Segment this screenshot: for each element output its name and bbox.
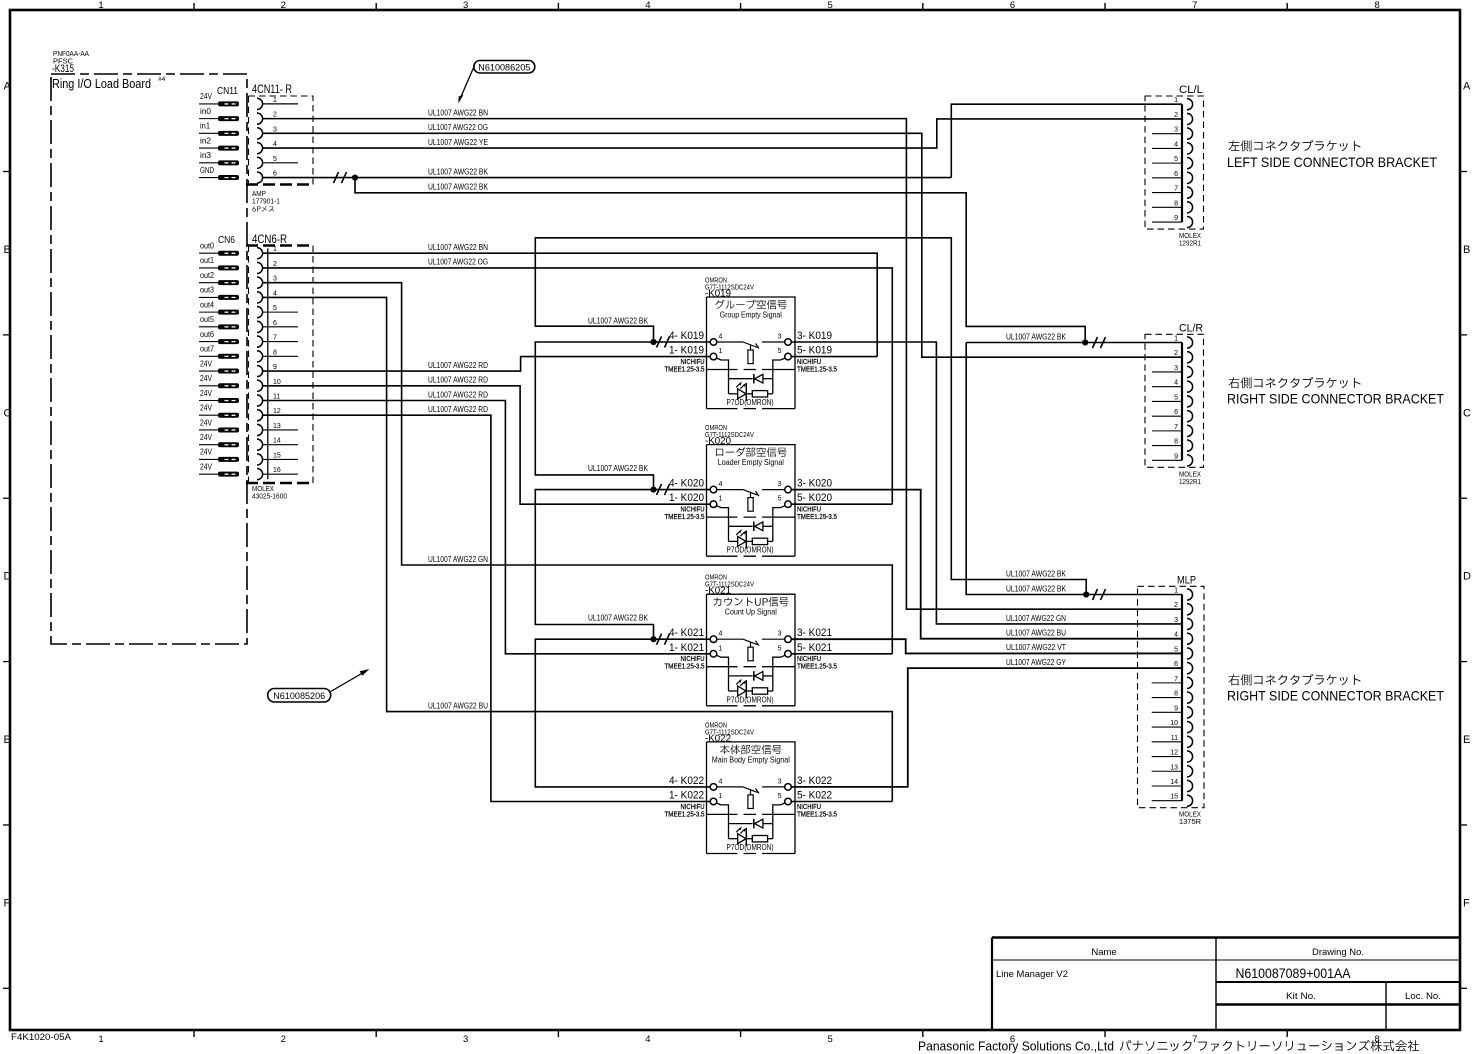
K021 pin 1 terminal [710, 651, 717, 658]
svg-text:7: 7 [273, 335, 277, 342]
K019 LED emission arrows [736, 383, 745, 389]
svg-text:4: 4 [719, 481, 723, 488]
svg-text:1: 1 [273, 246, 277, 253]
svg-text:2: 2 [281, 0, 286, 11]
CL/R pin 9 contact [1187, 455, 1193, 466]
svg-text:Line Manager V2: Line Manager V2 [996, 969, 1068, 980]
svg-text:1: 1 [273, 97, 277, 104]
svg-text:5: 5 [778, 348, 782, 355]
K020 pin 1 terminal [710, 501, 717, 508]
svg-text:4: 4 [719, 334, 723, 341]
svg-text:CL/L: CL/L [1179, 84, 1203, 96]
svg-text:UL1007 AWG22 BK: UL1007 AWG22 BK [428, 183, 489, 192]
svg-text:UL1007 AWG22 BU: UL1007 AWG22 BU [428, 701, 488, 710]
svg-text:in2: in2 [200, 135, 211, 145]
K020 pin 4 terminal [710, 486, 717, 493]
svg-text:UL1007 AWG22 BK: UL1007 AWG22 BK [588, 614, 649, 623]
K021 contact switch [717, 638, 743, 640]
balloon N610086205 leader arrow [460, 66, 475, 101]
svg-text:OMRON: OMRON [705, 575, 727, 582]
wire K020 pin3 to MLP pin4 (BU) [791, 490, 1182, 639]
label left side connector bracket JP [1229, 140, 1361, 152]
svg-text:8: 8 [1374, 0, 1379, 11]
svg-text:CL/R: CL/R [1179, 322, 1203, 334]
svg-text:3: 3 [778, 778, 782, 785]
svg-text:4: 4 [1174, 632, 1178, 639]
svg-text:9: 9 [1174, 705, 1178, 712]
svg-text:TMEE1.25-3.5: TMEE1.25-3.5 [797, 662, 837, 671]
svg-text:3: 3 [778, 631, 782, 638]
svg-text:2: 2 [281, 1034, 286, 1045]
svg-text:2: 2 [1174, 602, 1178, 609]
CL/R pin 4 stub [1152, 386, 1182, 388]
4CN6-R body line [267, 248, 269, 479]
CL/L pin 2 contact [1187, 113, 1193, 124]
K022 LED [729, 838, 738, 840]
svg-text:C: C [4, 407, 12, 419]
svg-text:in3: in3 [200, 150, 211, 160]
svg-text:OMRON: OMRON [705, 278, 727, 285]
wire break mark [657, 337, 670, 348]
wire BK branch to CL/L pin1 [951, 104, 1182, 177]
svg-text:1: 1 [1174, 97, 1178, 104]
4CN6-R pin 16 stub [263, 473, 298, 475]
wire BK lower branch [355, 178, 1085, 343]
svg-text:P7OD(OMRON): P7OD(OMRON) [727, 694, 774, 704]
svg-text:D: D [4, 571, 12, 583]
wire YE 4CN11-R pin4 to CL/L pin2 [263, 119, 1182, 148]
svg-text:4- K021: 4- K021 [669, 627, 704, 639]
K020 LED emission arrows [736, 531, 745, 537]
K022 diode [729, 823, 753, 825]
svg-text:-K022: -K022 [705, 732, 731, 744]
4CN11-R pin 1 stub [263, 103, 298, 105]
relay K020 (OMRON G7T-1112S DC24V) box [707, 445, 796, 557]
K022 pin1 internal wire [717, 803, 729, 839]
svg-text:TMEE1.25-3.5: TMEE1.25-3.5 [665, 512, 705, 521]
svg-text:F: F [1463, 898, 1470, 910]
MLP pin 7 contact [1187, 677, 1193, 688]
svg-text:1: 1 [719, 496, 723, 503]
svg-text:UL1007 AWG22 VT: UL1007 AWG22 VT [1006, 643, 1066, 652]
svg-text:3: 3 [1174, 127, 1178, 134]
svg-text:UL1007 AWG22 BK: UL1007 AWG22 BK [1006, 584, 1067, 593]
svg-text:6: 6 [1010, 0, 1015, 11]
wire BU 4CN6-R pin4 to K022 pin5 [263, 297, 893, 801]
svg-text:B: B [4, 244, 11, 256]
K022 pin 4 terminal [710, 784, 717, 791]
svg-text:out0: out0 [200, 241, 214, 251]
MLP pin 4 contact [1187, 633, 1193, 644]
CL/L pin 7 stub [1152, 192, 1182, 194]
svg-text:5: 5 [1174, 394, 1178, 401]
4CN6-R pin 16 contact [257, 469, 263, 480]
K020 diode [729, 525, 753, 527]
svg-text:7: 7 [1174, 424, 1178, 431]
svg-text:24V: 24V [200, 461, 212, 471]
svg-text:3: 3 [778, 334, 782, 341]
svg-text:TMEE1.25-3.5: TMEE1.25-3.5 [665, 662, 705, 671]
K021 title JP [714, 597, 789, 607]
svg-text:5: 5 [828, 1034, 833, 1045]
svg-text:8: 8 [1374, 1034, 1379, 1045]
svg-text:Loc. No.: Loc. No. [1405, 991, 1441, 1002]
svg-text:C: C [1463, 407, 1471, 419]
K020 resistor [746, 540, 752, 542]
svg-text:9: 9 [1174, 215, 1178, 222]
svg-text:3: 3 [463, 0, 468, 11]
svg-text:out5: out5 [200, 314, 214, 324]
4CN6-R pin 5 stub [263, 311, 298, 313]
svg-text:13: 13 [273, 423, 281, 430]
svg-text:TMEE1.25-3.5: TMEE1.25-3.5 [797, 809, 837, 818]
4CN11-R pin 5 contact [257, 157, 263, 168]
svg-text:1: 1 [98, 0, 103, 11]
svg-text:24V: 24V [200, 417, 212, 427]
svg-text:5: 5 [273, 305, 277, 312]
wire BK to CL/R pin1 [966, 342, 1182, 344]
connector CL/R dashed box [1145, 334, 1204, 467]
K020 pin 3 terminal [785, 486, 792, 493]
svg-text:6: 6 [1174, 409, 1178, 416]
K019 contact switch [717, 341, 743, 343]
wire RD 4CN6-R pin9 to K019 pin1 [263, 357, 711, 371]
svg-text:4: 4 [1174, 380, 1178, 387]
K019 pin 4 terminal [710, 339, 717, 346]
label right side connector bracket JP (CL/R) [1229, 377, 1361, 389]
svg-text:#4: #4 [158, 76, 166, 83]
junction BK at K019 pin4 [650, 339, 656, 345]
MLP pin 11 stub [1152, 741, 1182, 743]
svg-text:2: 2 [273, 261, 277, 268]
svg-text:16: 16 [273, 467, 281, 474]
4CN6-R pin 15 stub [263, 458, 298, 460]
svg-text:1: 1 [1174, 336, 1178, 343]
MLP pin 5 contact [1187, 648, 1193, 659]
svg-text:UL1007 AWG22 OG: UL1007 AWG22 OG [428, 123, 488, 132]
wire BK down to MLP pin1 [966, 343, 1182, 595]
K019 title JP [715, 300, 786, 310]
wire BN 4CN6-R pin1 to K019 pin5 [263, 253, 878, 356]
MLP pin 13 stub [1152, 770, 1182, 772]
CL/R pin 1 contact [1187, 337, 1193, 348]
CL/R pin 5 contact [1187, 396, 1193, 407]
svg-text:2: 2 [1174, 350, 1178, 357]
svg-text:4: 4 [719, 778, 723, 785]
svg-text:4: 4 [1174, 141, 1178, 148]
connector MLP dashed box [1138, 586, 1205, 807]
svg-text:F: F [4, 898, 11, 910]
4CN6-R pin 8 stub [263, 355, 298, 357]
svg-text:1- K021: 1- K021 [669, 642, 704, 654]
CL/L pin 4 contact [1187, 143, 1193, 154]
svg-text:UL1007 AWG22 BK: UL1007 AWG22 BK [588, 464, 649, 473]
relay K021 (OMRON G7T-1112S DC24V) box [707, 594, 796, 706]
svg-text:2: 2 [273, 112, 277, 119]
MLP pin 10 stub [1152, 726, 1182, 728]
wire break mark [1093, 337, 1106, 348]
wire K022 pin3 to MLP pin6 (GY) [791, 668, 1182, 787]
svg-text:N610085206: N610085206 [273, 691, 325, 701]
CL/L pin 7 contact [1187, 187, 1193, 198]
svg-text:3- K021: 3- K021 [797, 627, 832, 639]
svg-text:9: 9 [1174, 453, 1178, 460]
svg-text:7: 7 [1192, 1034, 1197, 1045]
svg-text:15: 15 [1170, 794, 1178, 801]
svg-text:5: 5 [778, 496, 782, 503]
K022 contact switch [717, 786, 743, 788]
4CN6-R pin 5 contact [257, 307, 263, 318]
K019 pin 3 terminal [785, 339, 792, 346]
4CN6-R pin 10 contact [257, 380, 263, 391]
svg-text:4CN11- R: 4CN11- R [252, 84, 292, 96]
MLP pin 15 stub [1152, 800, 1182, 802]
CL/R pin 5 stub [1152, 400, 1182, 402]
svg-text:Main Body Empty Signal: Main Body Empty Signal [712, 755, 790, 764]
svg-text:8: 8 [273, 349, 277, 356]
wire K022 pin5 [791, 801, 892, 803]
svg-text:1: 1 [719, 793, 723, 800]
wire break mark [657, 484, 670, 495]
svg-text:4- K019: 4- K019 [669, 330, 704, 342]
svg-text:24V: 24V [200, 403, 212, 413]
wire GN 4CN6-R pin3 to K021 pin5 [263, 283, 893, 654]
K022 pin 5 terminal [785, 798, 792, 805]
svg-text:out1: out1 [200, 255, 214, 265]
K021 pin 3 terminal [785, 636, 792, 643]
junction BK at K020 pin4 [650, 487, 656, 493]
svg-text:RIGHT SIDE CONNECTOR BRACKET: RIGHT SIDE CONNECTOR BRACKET [1227, 391, 1444, 407]
K022 pin 1 terminal [710, 798, 717, 805]
wire BK loop via relay coils bus [535, 238, 1086, 595]
svg-text:10: 10 [1170, 720, 1178, 727]
K021 coil [750, 643, 752, 648]
connector CL/L dashed box [1145, 96, 1204, 229]
wire OG 4CN11-R pin3 to CL/R pin2 [263, 133, 1182, 357]
svg-text:LEFT SIDE CONNECTOR BRACKET: LEFT SIDE CONNECTOR BRACKET [1227, 154, 1437, 170]
svg-text:5: 5 [273, 156, 277, 163]
K019 coil [750, 345, 752, 350]
svg-text:out3: out3 [200, 285, 214, 295]
CL/L pin 5 contact [1187, 158, 1193, 169]
wire RD 4CN6-R pin12 to K022 pin1 [263, 415, 711, 801]
CL/L pin 1 contact [1187, 99, 1193, 110]
K020 title JP [716, 447, 787, 457]
K019 pin5 internal wire [773, 358, 785, 394]
K021 diode [729, 675, 753, 677]
svg-text:7: 7 [1192, 0, 1197, 11]
junction BK at K021 pin4 [650, 636, 656, 642]
svg-text:177901-1: 177901-1 [252, 197, 280, 206]
CL/R pin 3 stub [1152, 371, 1182, 373]
svg-text:4: 4 [645, 1034, 650, 1045]
svg-text:UL1007 AWG22 OG: UL1007 AWG22 OG [428, 258, 488, 267]
4CN6-R pin 1 contact [257, 248, 263, 259]
svg-text:-K019: -K019 [705, 288, 731, 300]
svg-text:MLP: MLP [1177, 574, 1196, 586]
svg-text:UL1007 AWG22 RD: UL1007 AWG22 RD [428, 405, 488, 414]
4CN11-R pin 1 contact [257, 98, 263, 109]
svg-text:5: 5 [1174, 156, 1178, 163]
svg-text:24V: 24V [200, 358, 212, 368]
svg-text:UL1007 AWG22 YE: UL1007 AWG22 YE [428, 138, 488, 147]
4CN6-R pin 4 contact [257, 292, 263, 303]
wire K019 pin5 [791, 356, 877, 358]
svg-text:4: 4 [273, 290, 277, 297]
K019 pin 1 terminal [710, 353, 717, 360]
svg-text:N610087089+001AA: N610087089+001AA [1236, 966, 1351, 981]
K020 coil [750, 493, 752, 498]
connector 4CN6-R dashed box [249, 246, 314, 484]
svg-text:-K020: -K020 [705, 435, 731, 447]
svg-text:OMRON: OMRON [705, 722, 727, 729]
MLP pin 2 contact [1187, 604, 1193, 615]
svg-text:UL1007 AWG22 GY: UL1007 AWG22 GY [1006, 658, 1067, 667]
svg-text:3: 3 [273, 276, 277, 283]
svg-text:1375R: 1375R [1179, 817, 1202, 826]
wire break mark [1093, 589, 1106, 600]
svg-text:3: 3 [778, 481, 782, 488]
wire K021 pin5 [791, 653, 892, 655]
svg-text:3: 3 [273, 126, 277, 133]
CL/R pin 7 stub [1152, 430, 1182, 432]
svg-text:Group Empty Signal: Group Empty Signal [720, 311, 782, 320]
svg-text:5- K021: 5- K021 [797, 642, 832, 654]
MLP pin 1 contact [1187, 589, 1193, 600]
MLP pin 9 stub [1152, 711, 1182, 713]
K021 pin 4 terminal [710, 636, 717, 643]
svg-text:3- K022: 3- K022 [797, 775, 832, 787]
4CN6-R pin 2 contact [257, 262, 263, 273]
svg-text:out4: out4 [200, 299, 214, 309]
K021 pin1 internal wire [717, 655, 729, 691]
svg-text:1292R1: 1292R1 [1179, 239, 1201, 248]
CL/R pin 6 stub [1152, 415, 1182, 417]
MLP pin 12 contact [1187, 751, 1193, 762]
reference balloon N610086205 [474, 61, 535, 74]
svg-text:TMEE1.25-3.5: TMEE1.25-3.5 [665, 365, 705, 374]
svg-text:24V: 24V [200, 447, 212, 457]
CL/L pin 9 contact [1187, 216, 1193, 227]
svg-text:OMRON: OMRON [705, 425, 727, 432]
svg-text:12: 12 [273, 408, 281, 415]
svg-text:4CN6-R: 4CN6-R [252, 234, 287, 246]
wire break mark [657, 634, 670, 645]
svg-text:24V: 24V [200, 388, 212, 398]
svg-text:UL1007 AWG22 RD: UL1007 AWG22 RD [428, 376, 488, 385]
svg-text:3: 3 [1174, 365, 1178, 372]
svg-text:E: E [1463, 734, 1470, 746]
wire RD 4CN6-R pin10 to K020 pin1 [263, 386, 711, 504]
MLP pin 14 stub [1152, 785, 1182, 787]
CL/L pin 3 stub [1152, 133, 1182, 135]
CL/R pin 6 contact [1187, 411, 1193, 422]
svg-text:6: 6 [273, 171, 277, 178]
wire BK chain segment below K021 [535, 639, 710, 787]
svg-text:8: 8 [1174, 691, 1178, 698]
K020 pin5 internal wire [773, 506, 785, 542]
svg-text:5: 5 [778, 645, 782, 652]
CL/R body line [1181, 343, 1183, 461]
CL/R pin 2 contact [1187, 352, 1193, 363]
svg-text:UL1007 AWG22 BK: UL1007 AWG22 BK [1006, 569, 1067, 578]
4CN6-R pin 3 contact [257, 277, 263, 288]
svg-text:UL1007 AWG22 BK: UL1007 AWG22 BK [428, 167, 489, 176]
svg-text:8: 8 [1174, 200, 1178, 207]
4CN6-R pin 15 contact [257, 454, 263, 465]
svg-text:5- K019: 5- K019 [797, 345, 832, 357]
K020 contact switch [717, 489, 743, 491]
MLP pin 10 contact [1187, 721, 1193, 732]
svg-text:TMEE1.25-3.5: TMEE1.25-3.5 [797, 365, 837, 374]
svg-text:4: 4 [645, 0, 650, 11]
svg-text:3: 3 [1174, 617, 1178, 624]
MLP pin 15 contact [1187, 795, 1193, 806]
4CN11-R pin 6 contact [257, 172, 263, 183]
4CN6-R pin 13 contact [257, 424, 263, 435]
4CN6-R pin 12 contact [257, 410, 263, 421]
svg-text:P7OD(OMRON): P7OD(OMRON) [727, 397, 774, 407]
svg-text:P7OD(OMRON): P7OD(OMRON) [727, 842, 774, 852]
svg-text:7: 7 [1174, 676, 1178, 683]
svg-text:43025-1600: 43025-1600 [252, 492, 287, 501]
svg-text:B: B [1463, 244, 1470, 256]
MLP pin 6 contact [1187, 663, 1193, 674]
svg-text:4: 4 [719, 631, 723, 638]
svg-text:13: 13 [1170, 764, 1178, 771]
K019 LED [729, 393, 738, 395]
CL/R pin 4 contact [1187, 381, 1193, 392]
svg-text:6: 6 [1174, 171, 1178, 178]
junction BK at CL/R pin1 [1082, 339, 1088, 345]
wire break mark [334, 172, 347, 183]
4CN6-R pin 6 stub [263, 326, 298, 328]
wire BK into K021 pin 4 [654, 638, 711, 640]
wire K020 pin5 [791, 503, 892, 505]
wire BK pin6 horizontal [263, 177, 952, 179]
wire K021 pin3 to MLP pin5 (VT) [791, 639, 1182, 653]
svg-text:UL1007 AWG22 BK: UL1007 AWG22 BK [1006, 332, 1067, 341]
4CN6-R pin 11 contact [257, 395, 263, 406]
svg-text:A: A [4, 81, 12, 93]
CL/L pin 5 stub [1152, 162, 1182, 164]
svg-text:-K021: -K021 [705, 585, 731, 597]
K022 coil [750, 790, 752, 795]
MLP body line [1181, 595, 1183, 801]
MLP pin 13 contact [1187, 766, 1193, 777]
svg-text:in1: in1 [200, 121, 210, 131]
K020 LED [729, 540, 738, 542]
svg-text:RIGHT SIDE CONNECTOR BRACKET: RIGHT SIDE CONNECTOR BRACKET [1227, 688, 1444, 704]
svg-text:UL1007 AWG22 BN: UL1007 AWG22 BN [428, 108, 488, 117]
K021 pin5 internal wire [773, 655, 785, 691]
K020 pin 5 terminal [785, 501, 792, 508]
CL/L pin 8 contact [1187, 202, 1193, 213]
svg-text:CN11: CN11 [217, 85, 238, 97]
svg-text:F4K1020-05A: F4K1020-05A [11, 1032, 72, 1043]
svg-text:TMEE1.25-3.5: TMEE1.25-3.5 [665, 809, 705, 818]
K021 pin 5 terminal [785, 651, 792, 658]
svg-text:11: 11 [273, 394, 280, 401]
svg-text:2: 2 [1174, 112, 1178, 119]
K019 pin1 internal wire [717, 358, 729, 394]
4CN6-R pin 14 contact [257, 439, 263, 450]
title block [992, 936, 1460, 939]
CL/L pin 8 stub [1152, 206, 1182, 208]
svg-text:1- K020: 1- K020 [669, 492, 704, 504]
CL/R pin 8 stub [1152, 445, 1182, 447]
svg-text:3: 3 [463, 1034, 468, 1045]
